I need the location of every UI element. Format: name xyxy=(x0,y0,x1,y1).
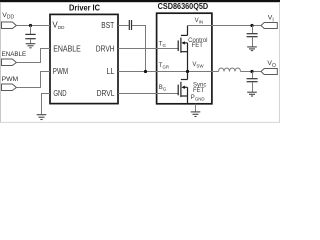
svg-text:TG: TG xyxy=(159,42,167,49)
transistor Q1 Control FET xyxy=(178,26,187,72)
wire PWM tag to pin xyxy=(16,72,50,88)
svg-text:VI: VI xyxy=(268,15,274,24)
page frame top bar xyxy=(0,0,280,2)
IC U2 CSD86360Q5D box xyxy=(157,13,212,104)
svg-text:PWM: PWM xyxy=(53,67,69,76)
node junction VDD xyxy=(29,24,32,27)
capacitor C2 (bootstrap) xyxy=(128,20,130,30)
svg-text:FET: FET xyxy=(193,88,205,94)
svg-text:LL: LL xyxy=(107,67,115,76)
ground (input cap) xyxy=(247,46,257,48)
node junction switch node xyxy=(186,70,189,73)
svg-text:FET: FET xyxy=(192,43,204,49)
svg-text:ENABLE: ENABLE xyxy=(53,44,81,53)
node junction VIN xyxy=(250,24,253,27)
svg-text:VSW: VSW xyxy=(192,62,204,68)
wire DRVL to BG xyxy=(118,93,179,95)
wire inductor to VO xyxy=(241,71,262,73)
svg-text:DRVL: DRVL xyxy=(97,89,115,98)
wire bootstrap cap to switch node xyxy=(132,26,146,72)
ground (driver GND) xyxy=(37,114,47,116)
page frame side/bottom borders xyxy=(0,2,2,123)
node junction bootstrap-LL xyxy=(144,70,147,73)
svg-text:BG: BG xyxy=(159,85,167,92)
svg-text:TGR: TGR xyxy=(159,63,169,70)
node junction VO xyxy=(250,70,253,73)
transistor Q2 Sync FET xyxy=(178,72,187,104)
inductor L1 xyxy=(219,68,241,71)
svg-text:CSD86360Q5D: CSD86360Q5D xyxy=(158,2,209,11)
wire GND pin to ground xyxy=(42,94,51,115)
capacitor C4 (output) xyxy=(252,72,254,79)
IC U1 Driver IC box xyxy=(50,14,118,103)
svg-text:Driver IC: Driver IC xyxy=(69,3,100,12)
capacitor C1 (VDD decoupling) xyxy=(30,26,32,35)
svg-text:VDD: VDD xyxy=(2,12,14,21)
svg-text:VIN: VIN xyxy=(195,18,203,24)
wire PGND to ground xyxy=(195,104,197,112)
ground (output cap) xyxy=(247,91,257,93)
wire BST to bootstrap cap xyxy=(118,25,129,27)
wire ENABLE tag to pin xyxy=(16,49,50,63)
svg-text:DRVH: DRVH xyxy=(96,44,115,53)
svg-text:BST: BST xyxy=(101,21,114,30)
svg-text:VO: VO xyxy=(267,60,276,69)
svg-text:ENABLE: ENABLE xyxy=(2,51,27,58)
svg-text:PWM: PWM xyxy=(2,76,19,83)
ground (VDD cap) xyxy=(26,43,36,45)
capacitor C3 (input) xyxy=(252,26,254,34)
wire DRVH to TG xyxy=(118,48,179,50)
svg-text:PGND: PGND xyxy=(191,95,205,101)
wire VDD tag to pin xyxy=(16,25,50,27)
svg-text:GND: GND xyxy=(53,89,66,98)
ground (PGND) xyxy=(191,111,201,113)
wire VIN net xyxy=(188,25,262,27)
wire LL to TGR to VSW xyxy=(118,71,219,73)
